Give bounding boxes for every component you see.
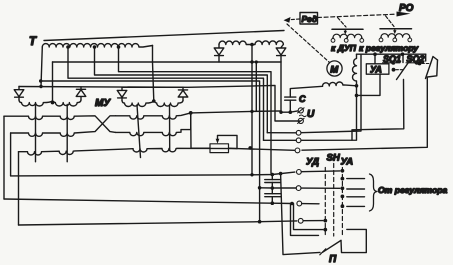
node: UA column dot 2 <box>341 177 345 181</box>
selsyn 2 winding <box>381 34 410 37</box>
wire: rheostat right lead to row3 junction <box>229 147 238 149</box>
rheostat R body <box>210 144 229 153</box>
wire: bundle line y81 from T left end to fan <box>41 81 260 222</box>
contact segment 4 to regulator <box>347 205 365 207</box>
limit switch SQ2 upper terminal <box>425 54 427 61</box>
selsyn 1 wiper arrow <box>344 29 346 32</box>
node: center tap on rail y62 <box>250 60 253 63</box>
wire: line A from MU2 output to AC terminal <box>191 111 281 113</box>
dashed link: Red to RO arrow <box>318 14 397 17</box>
MU1 gate winding <box>19 100 81 106</box>
wire: SQ1 lower terminal down and left <box>352 80 404 141</box>
node: cap bottom junction on line 2 <box>271 201 275 205</box>
node: cap top junction on row A <box>271 173 275 177</box>
selsyn 1 wiper bar <box>332 28 363 30</box>
MU working winding row 3 (right group) <box>133 148 295 152</box>
node: junction of center-tap vertical on line A <box>250 110 253 113</box>
wire: stub from circle to UD column <box>303 220 323 222</box>
diode VD2 (MU1 right) <box>76 87 86 100</box>
svg-text:УА: УА <box>370 65 382 75</box>
wire: T right end down to MU2 center tap <box>153 46 154 101</box>
wire: T tap2 down and right (bundle line y75) <box>95 47 268 133</box>
node: UA column dot 3 <box>341 186 345 190</box>
wire: row 1 terminal line from fan <box>267 132 296 134</box>
wire: middle feeder to open side <box>291 204 319 236</box>
diode VD5 (MU2 left) <box>117 87 127 100</box>
wire: capacitor C bottom lead <box>289 100 291 112</box>
wire: rheostat left lead from line A joint <box>191 113 210 148</box>
relay UA box <box>366 64 389 74</box>
capacitor C plate top <box>285 96 296 98</box>
MU2 working winding row 2 (to joint node) <box>116 113 191 136</box>
selsyn 1 winding <box>333 34 362 37</box>
wire: rheostat wiper loop <box>218 135 238 148</box>
terminal: AC supply terminal 2 (slashed circle) <box>298 118 303 123</box>
wire: T tap1 down and right (bundle line y78) <box>68 47 264 140</box>
selsyn 2 terminal left <box>380 36 382 39</box>
svg-text:МУ: МУ <box>95 98 111 109</box>
wire: relay top rail <box>357 53 426 55</box>
node: MU2 gate winding center <box>152 99 156 103</box>
wire: row 2 circle to motor node riser <box>301 86 357 141</box>
SQ2 label underline <box>406 62 424 64</box>
svg-text:C: C <box>299 94 306 104</box>
node: row B junction on fan vertical <box>258 186 262 190</box>
selsyn 1 terminal right <box>361 37 363 40</box>
wire: row3 left end down (to line 3) <box>18 152 20 225</box>
wire: row B circle to UA column <box>301 187 340 189</box>
capacitor C2 plate bottom <box>265 196 281 198</box>
svg-text:П: П <box>329 254 337 265</box>
dashed link: wiper 2 <box>386 16 395 27</box>
diode VD1 (MU1 left) <box>14 87 24 101</box>
wire: rail junction down to line A <box>255 62 257 111</box>
selsyn 2 terminal mid <box>394 36 397 39</box>
wire: UA box top pin <box>374 54 376 64</box>
selsyn 1 terminal left <box>332 37 334 40</box>
wire: MU1 left cusp vertical <box>35 105 37 162</box>
SQ1 label underline <box>383 62 401 64</box>
wire: MU1 right cusp vertical <box>66 105 68 162</box>
node: UA column dot 5 <box>341 204 345 208</box>
dashed link: Red to left arrow <box>288 18 300 21</box>
MU working winding row 3 (left group) <box>19 149 134 155</box>
SQ1 actuator dashes <box>396 69 404 71</box>
wire: P switch feeder from row A <box>281 174 320 255</box>
node: T right winding center tap <box>250 43 254 47</box>
node: long vertical junction on row 3 <box>248 146 252 150</box>
wire: MU2 left cusp vertical <box>137 105 141 158</box>
SQ2 actuator dot <box>418 62 422 66</box>
transformer T right winding (rectifier winding) <box>219 41 283 45</box>
limit switch SQ1 blade <box>397 60 411 80</box>
selsyn 2 wiper arrow <box>394 29 396 32</box>
wire: row 1 circle to relay rail riser <box>301 55 361 133</box>
rheostat wiper arrowhead <box>216 139 220 144</box>
node: choke to relay coil junction <box>355 84 359 88</box>
node: center-tap vertical joins row A <box>250 173 253 176</box>
brace for regulator group <box>370 174 378 211</box>
terminal: row 3 open circle <box>295 148 300 153</box>
node: T tap 3 <box>117 45 121 49</box>
wire: row B from fan junction to UA column <box>260 187 297 189</box>
terminal: row 1 open circle <box>296 130 301 135</box>
MU2 gate winding <box>122 101 183 107</box>
limit switch SQ1 upper terminal <box>402 54 404 62</box>
diode VD6 (MU2 right) <box>178 87 188 100</box>
svg-text:U: U <box>307 109 315 120</box>
dashed link: Red to motor M <box>287 24 330 63</box>
limit switch SQ2 blade <box>426 57 438 79</box>
node: fan y81 vertical joins line 3 <box>258 220 262 224</box>
node: row A junction to P switch feeder <box>279 172 283 176</box>
SQ1 actuator dot <box>392 68 396 72</box>
tilde mark of AC supply <box>300 115 307 117</box>
P switch blade <box>323 240 342 252</box>
svg-text:М: М <box>330 65 339 76</box>
svg-text:Ред: Ред <box>302 14 318 24</box>
wire: line 2 long bottom bus <box>4 199 292 204</box>
node: motor node lower junction <box>355 94 359 98</box>
wire: capacitor column <box>271 175 273 204</box>
svg-text:к регулятору: к регулятору <box>359 43 419 53</box>
node: UA column dot 1 <box>341 169 345 173</box>
node: line 2 right junction <box>290 202 294 206</box>
wire: MU2 right cusp vertical <box>169 105 171 151</box>
gear box Red <box>300 13 318 25</box>
wire: row1 left end down (to line 2) <box>3 116 5 199</box>
node: rail second junction <box>255 60 258 63</box>
terminal: row 2 open circle <box>296 138 301 143</box>
terminal: AC supply terminal 1 (slashed circle) <box>298 108 303 113</box>
MU2 anode rail <box>122 86 183 88</box>
node: T tap 1 <box>66 45 70 49</box>
transformer T secondary winding <box>42 44 152 47</box>
wire: rectifier bottom rail y62 <box>53 61 282 63</box>
wire: P switch right side loop <box>341 229 366 252</box>
inductor (motor circuit choke) <box>322 82 356 86</box>
dashed contact column УД <box>324 168 326 237</box>
relay coil (vertical winding) <box>353 54 357 86</box>
RO arrowhead <box>397 12 411 17</box>
svg-text:SH: SH <box>327 153 341 164</box>
node: UD column lower contact dot <box>323 228 327 232</box>
node: rectifier output on line A <box>279 111 282 114</box>
wire: row2 left end down (to line 1) <box>10 133 12 176</box>
node: rail to SQ1 <box>401 52 405 56</box>
wire: line 1 long bus to row A <box>11 172 295 176</box>
dashed link: wiper 1 <box>338 18 347 28</box>
transformer T core line <box>44 31 284 41</box>
diode VD3 (left of right winding) <box>214 45 224 63</box>
svg-text:РО: РО <box>399 3 414 14</box>
terminal: row B open circle <box>296 186 301 191</box>
svg-text:От регулятора: От регулятора <box>378 185 448 195</box>
wire: T left end down to rectifier rail <box>41 47 42 87</box>
capacitor C1 plate top <box>265 179 281 181</box>
wire: row A to UA contact column <box>301 170 340 173</box>
MU2 working winding row 1 (to joint node) <box>116 113 191 119</box>
contact segment 2 to regulator <box>347 188 365 190</box>
motor M circle <box>327 61 342 76</box>
wire: line 3 long bus to UD contact <box>19 221 297 225</box>
P switch pivot tick <box>320 249 326 255</box>
node: T left-end junction on bundle line <box>39 79 42 82</box>
node: capacitor middle junction <box>271 186 275 190</box>
wire: T2 center tap vertical down to row A <box>251 45 253 175</box>
arrowhead at transformer core end <box>284 17 291 23</box>
wire: lower UD contact feeder <box>292 204 323 230</box>
dashed contact column УА <box>341 168 343 237</box>
MU1 working winding row 2 <box>11 116 116 137</box>
wire: line 2 stub after circle <box>302 203 319 205</box>
capacitor C plate bottom <box>285 99 296 101</box>
wire: to AC terminal 1 <box>290 111 298 112</box>
terminal: row A open circle <box>297 170 302 175</box>
node: rail to UA box <box>373 52 377 56</box>
capacitor C2 plate top <box>265 193 281 195</box>
SQ2 actuator dashes <box>422 63 430 65</box>
capacitor C1 plate bottom <box>265 182 281 184</box>
wire: T tap3 down and right (bundle line y71.7) <box>119 47 272 173</box>
terminal: line 2 open circle <box>297 201 302 206</box>
node: T tap 2 <box>93 45 97 49</box>
svg-text:к ДУП: к ДУП <box>331 43 357 53</box>
selsyn 2 terminal right <box>409 36 411 39</box>
MU1 working winding row 1 <box>4 116 116 133</box>
node: MU2 output joint <box>189 111 193 115</box>
wire: diode VD4 output down to AC node <box>281 62 291 112</box>
node: T left-end junction on МУ rail <box>39 85 42 88</box>
svg-text:УА: УА <box>341 157 354 168</box>
svg-text:T: T <box>29 36 37 48</box>
MU1 anode rail <box>19 85 300 121</box>
contact segment 1 to regulator <box>347 178 365 180</box>
wire: row 2 terminal line from fan <box>264 139 297 141</box>
node: AC terminal junction <box>289 110 293 114</box>
svg-text:УД: УД <box>306 157 319 168</box>
selsyn 1 terminal mid <box>346 37 347 40</box>
node: UD column upper contact dot <box>323 219 327 223</box>
terminal: line 3 open circle <box>298 218 303 223</box>
wire: UA box bottom pin to motor node <box>357 74 381 95</box>
dashed contact column SH <box>333 164 335 237</box>
node: UA column dot 4 <box>341 195 345 199</box>
selsyn 2 wiper bar <box>380 28 412 30</box>
contact segment 3 to regulator <box>347 196 365 198</box>
diode VD4 (right of right winding) <box>276 45 286 63</box>
wire: SQ2 lower terminal down and left <box>302 60 438 150</box>
wire: capacitor C top lead to motor coil line <box>290 86 322 97</box>
node: MU1 gate winding center <box>51 101 55 105</box>
wire: MU1 center tap riser <box>52 62 54 104</box>
